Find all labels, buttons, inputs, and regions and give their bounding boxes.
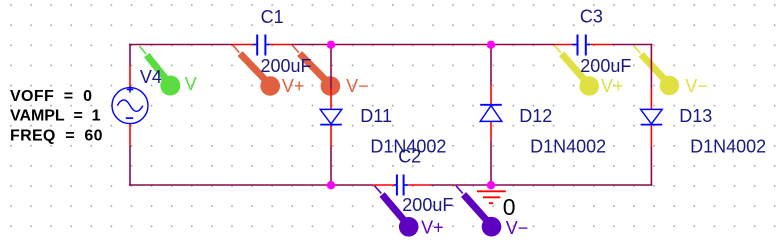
wire D12 branch lower xyxy=(490,142,492,186)
wire left vertical lower (from V4 bottom) xyxy=(129,146,131,186)
wire D11 branch upper xyxy=(330,45,332,89)
diode D13 xyxy=(641,89,663,147)
svg-text:V−: V− xyxy=(346,76,369,96)
ground 0 symbol xyxy=(477,191,506,203)
capacitor C3 xyxy=(555,35,611,56)
svg-text:200uF: 200uF xyxy=(402,195,453,215)
svg-text:V−: V− xyxy=(506,218,529,238)
voltage differential marker V+ (yellow) at C3 left pin xyxy=(554,45,599,96)
svg-text:V−: V− xyxy=(685,76,708,96)
diode D12 xyxy=(480,86,502,142)
svg-text:FREQ = 60: FREQ = 60 xyxy=(10,128,103,145)
wire top bus middle segment xyxy=(292,44,556,46)
wire top bus right segment xyxy=(612,44,653,46)
wire D12 branch upper xyxy=(490,45,492,86)
svg-text:200uF: 200uF xyxy=(261,56,312,76)
wire right vertical upper (to D13) xyxy=(650,44,652,89)
svg-text:200uF: 200uF xyxy=(580,56,631,76)
wire bottom bus right segment xyxy=(430,184,653,186)
svg-text:V+: V+ xyxy=(282,76,305,96)
voltage differential marker V- (orange) at C1 right pin xyxy=(292,45,340,96)
wire top bus left segment xyxy=(129,44,232,46)
wire right vertical lower (from D13) xyxy=(650,146,652,186)
wire left vertical upper (to V4 top) xyxy=(129,44,131,65)
wire D11 branch lower xyxy=(330,146,332,185)
voltage differential marker V- (yellow) right of C3 xyxy=(634,46,680,96)
wire bottom bus left segment xyxy=(129,184,373,186)
diode D11 xyxy=(320,89,342,147)
voltage marker V (green) on node at V4 xyxy=(140,46,181,96)
svg-text:V4: V4 xyxy=(140,67,162,87)
junction node at ground / D12 bottom xyxy=(487,181,495,189)
junction node at D12 top xyxy=(487,41,495,49)
svg-text:VAMPL = 1: VAMPL = 1 xyxy=(10,108,101,125)
svg-text:D1N4002: D1N4002 xyxy=(530,136,606,156)
svg-text:V+: V+ xyxy=(421,218,444,238)
svg-text:V: V xyxy=(185,74,197,94)
capacitor C2 xyxy=(373,175,429,196)
svg-text:D13: D13 xyxy=(679,106,712,126)
svg-text:D11: D11 xyxy=(360,106,392,126)
svg-text:D12: D12 xyxy=(519,106,552,126)
voltage differential marker V+ (purple) at C2 left pin xyxy=(375,186,419,237)
voltage differential marker V+ (orange) at C1 left pin xyxy=(233,45,281,96)
svg-text:0: 0 xyxy=(503,194,516,220)
voltage differential marker V- (purple) at ground node xyxy=(456,186,501,237)
junction node at D11 bottom xyxy=(327,181,335,189)
svg-text:C2: C2 xyxy=(398,146,421,166)
capacitor C1 xyxy=(233,35,292,56)
svg-text:D1N4002: D1N4002 xyxy=(690,136,766,156)
svg-text:V+: V+ xyxy=(601,76,624,96)
svg-text:C3: C3 xyxy=(580,7,603,27)
voltage source V4 (VSIN) xyxy=(112,65,148,146)
svg-text:C1: C1 xyxy=(261,7,284,27)
svg-text:VOFF = 0: VOFF = 0 xyxy=(10,88,92,105)
junction node at C1 output / D11 anode xyxy=(327,41,335,49)
